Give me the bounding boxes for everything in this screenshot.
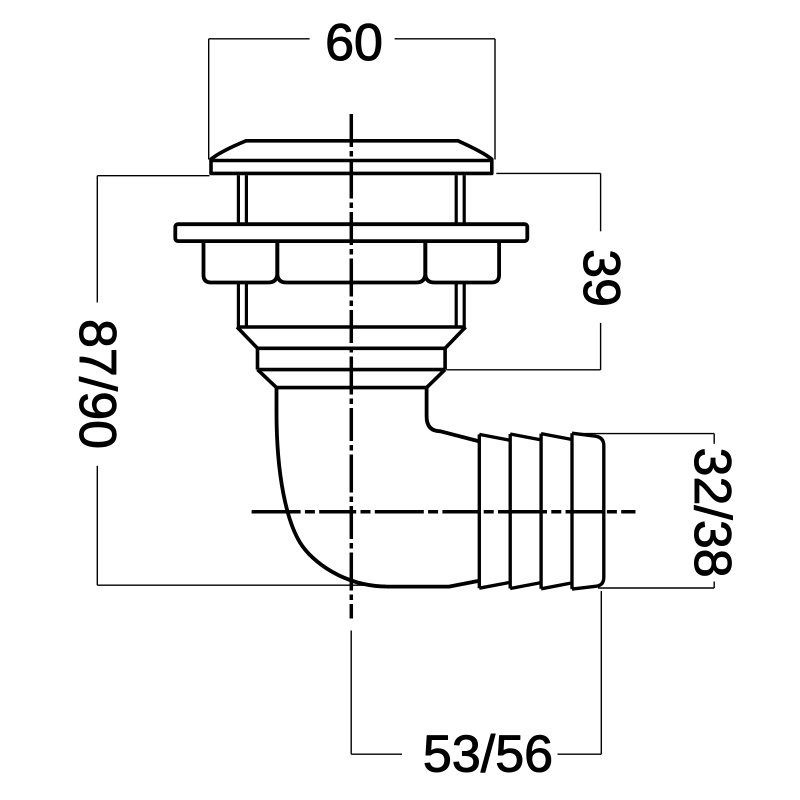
svg-text:39: 39 <box>572 249 630 307</box>
neck thread right crest <box>463 175 466 224</box>
cap outline <box>211 141 492 174</box>
dim 53/56 ext right <box>600 591 602 754</box>
dim 87/90 line upper <box>96 176 98 303</box>
barb 2 top slant <box>510 434 541 440</box>
dim 32/38 line upper <box>713 434 715 444</box>
neck thread left crest <box>237 175 240 224</box>
dim 53/56 ext left <box>350 631 352 755</box>
dim 32/38 ext bottom <box>598 587 714 589</box>
flange <box>175 224 527 241</box>
barb 1 bottom slant <box>479 582 510 588</box>
barb 1 top slant <box>479 434 510 440</box>
barb lip 4 <box>570 433 573 589</box>
svg-text:53/56: 53/56 <box>423 726 553 784</box>
neck thread right root <box>455 175 458 224</box>
barb 3 top slant <box>541 434 572 440</box>
lip slant right <box>445 327 466 348</box>
dim 39 line lower <box>600 323 602 370</box>
dim 39 line upper <box>600 173 602 231</box>
lip slant left <box>237 327 258 348</box>
dim 87/90 ext top <box>97 175 209 177</box>
elbow outer curve <box>277 388 480 587</box>
lower thread left crest <box>237 283 240 328</box>
dim 60 line left <box>209 38 310 40</box>
dim 60 ext right <box>494 39 496 160</box>
dim 87/90 line lower <box>96 466 98 585</box>
dim 60 line right <box>395 38 495 40</box>
barb 3 bottom slant <box>541 583 572 589</box>
thread end lip line <box>237 325 466 329</box>
svg-text:32/38: 32/38 <box>683 448 741 578</box>
dim 32/38 line lower <box>713 582 715 589</box>
nut facet right <box>425 241 499 282</box>
barb lip 3 <box>539 434 542 589</box>
barb lip 1 <box>478 434 481 588</box>
elbow inner curve <box>427 388 480 442</box>
lower thread right root <box>455 283 458 328</box>
svg-text:60: 60 <box>325 14 383 72</box>
hose tail end <box>572 433 604 589</box>
svg-text:87/90: 87/90 <box>68 319 126 449</box>
dim 60 ext left <box>208 39 210 160</box>
neck thread left root <box>245 175 248 224</box>
dim 53/56 line left <box>351 753 402 755</box>
centerline vertical axis <box>350 114 354 619</box>
dim 53/56 line right <box>558 753 602 755</box>
nut facet left <box>204 241 278 282</box>
dim 39 ext top <box>496 172 600 174</box>
centerline horizontal axis <box>252 510 636 514</box>
barb 2 bottom slant <box>510 583 541 589</box>
elbow top edge <box>277 386 427 390</box>
lower thread left root <box>245 283 248 328</box>
dim 87/90 ext bottom <box>97 584 385 586</box>
ring lower slant right <box>427 370 446 388</box>
ring collar bottom edge <box>258 368 446 372</box>
lower thread right crest <box>463 283 466 328</box>
dim 32/38 ext top <box>578 433 714 435</box>
nut facet middle <box>277 241 425 282</box>
ring collar <box>258 348 446 369</box>
barb lip 2 <box>509 434 512 589</box>
ring lower slant left <box>258 370 277 388</box>
cap rim line <box>211 159 492 163</box>
dim 39 ext bottom <box>447 369 601 371</box>
